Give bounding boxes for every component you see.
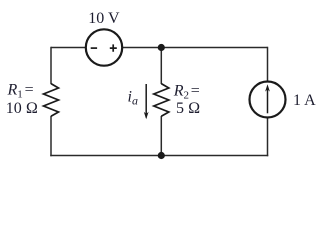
wire top-right segment	[122, 47, 267, 49]
svg-text:10 Ω: 10 Ω	[6, 100, 38, 117]
current source arrow line	[267, 88, 269, 113]
current source I1 circle	[250, 82, 286, 118]
wire left vertical upper	[50, 47, 52, 84]
wire left vertical lower	[50, 116, 52, 156]
wire bottom	[50, 155, 268, 157]
current source arrow head	[265, 84, 270, 91]
node junction top	[158, 44, 165, 51]
resistor R2 zigzag	[154, 84, 169, 117]
svg-text:ia: ia	[128, 89, 138, 108]
svg-text:1 A: 1 A	[293, 92, 316, 109]
voltage source minus sign	[91, 47, 97, 49]
svg-text:R1=: R1=	[7, 82, 34, 101]
voltage source plus sign	[110, 44, 117, 51]
wire middle vertical upper	[160, 48, 162, 85]
node junction bottom	[158, 152, 165, 159]
wire right vertical upper	[267, 47, 269, 82]
resistor R1 zigzag	[44, 84, 59, 117]
current arrow ia head	[144, 112, 149, 120]
svg-text:10 V: 10 V	[88, 10, 120, 27]
wire middle vertical lower	[160, 116, 162, 156]
voltage source V1 circle	[86, 29, 122, 65]
svg-text:R2=: R2=	[173, 83, 200, 102]
current arrow ia line	[145, 84, 147, 118]
svg-text:5 Ω: 5 Ω	[176, 100, 200, 117]
wire top-left segment	[51, 47, 86, 49]
wire right vertical lower	[267, 118, 269, 157]
